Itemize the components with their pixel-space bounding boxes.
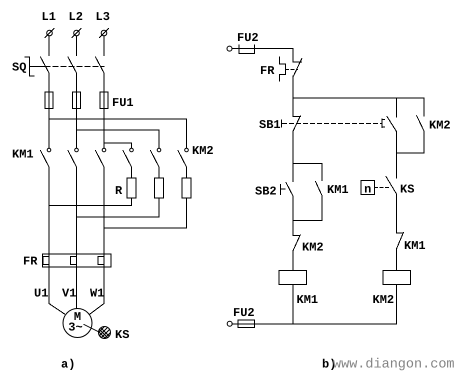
wire crossover phase1 to KM2 contact 6 (49, 119, 187, 148)
svg-text:L1: L1 (42, 10, 56, 24)
button SB2 NO contact (286, 183, 293, 197)
contactor KM2 main contact 4 (123, 148, 133, 167)
svg-text:n: n (364, 183, 371, 197)
wire FR to SB1 (292, 76, 294, 116)
svg-text:www.diangon.com: www.diangon.com (333, 358, 455, 373)
wire contact5 to resistor R2 (158, 167, 160, 178)
FR heater element 3 (98, 254, 104, 267)
wire contact6 to resistor R3 (186, 167, 188, 178)
contactor KM2 main contact 6 (178, 148, 188, 167)
wire split top down right (321, 163, 323, 180)
wire L2 to SQ (76, 36, 78, 56)
wire KS to KM1 NC (396, 194, 398, 233)
svg-text:KM2: KM2 (192, 144, 214, 158)
fuse FU1 phase 3 (100, 92, 108, 109)
switch SQ handle bracket (25, 57, 34, 76)
wire KM2 aux down (423, 131, 425, 153)
wire R1 to phase1 join (49, 198, 132, 206)
svg-text:L2: L2 (69, 10, 83, 24)
button SB1 NO contact (387, 117, 397, 132)
terminal L3 (100, 29, 109, 38)
wire KM1 coil to bus (292, 285, 294, 324)
FR heater element 2 (71, 254, 77, 267)
wire split top (293, 162, 322, 164)
wire FR to motor V1 (76, 267, 78, 309)
svg-text:FU2: FU2 (237, 31, 259, 45)
svg-text:KM1: KM1 (404, 239, 426, 253)
wire bottom bus (238, 323, 396, 325)
wire to KS contact (396, 153, 398, 178)
wire crossover phase2 to KM2 contact 5 (77, 130, 160, 148)
fuse FU2 top (232, 45, 254, 53)
wire to KM1 coil (292, 250, 294, 270)
svg-text:KM2: KM2 (373, 293, 395, 307)
fuse FU2 bottom (232, 320, 254, 328)
button SB1 link dashes (283, 122, 381, 124)
svg-text:FR: FR (23, 255, 38, 269)
wire fuse1 down to KM1 contact 1 (48, 109, 50, 148)
contactor KM1 NC interlock (396, 233, 403, 250)
svg-text:V1: V1 (62, 287, 76, 301)
svg-text:SQ: SQ (12, 61, 26, 75)
switch SQ blade 1 (41, 57, 50, 73)
svg-text:KM1: KM1 (297, 293, 319, 307)
wire R3 to phase3 join (104, 198, 187, 228)
coil KM2 (383, 271, 411, 285)
wire KM2 coil to bus (396, 285, 398, 324)
resistor R2 (155, 178, 164, 198)
svg-text:U1: U1 (34, 287, 48, 301)
wire split bottom (293, 219, 322, 221)
wire contact4 to resistor R1 (131, 167, 133, 178)
switch SQ blade 2 (68, 57, 77, 73)
wire R2 to phase2 join (77, 198, 160, 217)
shaft link motor to KS (84, 325, 99, 333)
contactor KM2 NC interlock (293, 235, 300, 250)
fuse FU1 phase 2 (73, 92, 81, 109)
wire SB2 down (292, 196, 294, 220)
FR heater element 1 (43, 254, 49, 267)
svg-text:KS: KS (400, 183, 414, 197)
svg-text:KM2: KM2 (302, 241, 324, 255)
svg-text:FU1: FU1 (112, 96, 134, 110)
wire right rail SB1NO top (396, 98, 398, 117)
button SB1 NO actuator E (382, 119, 385, 128)
terminal control top (227, 46, 232, 51)
svg-text:SB1: SB1 (259, 118, 281, 132)
contactor KM2 aux NO contact (417, 116, 424, 131)
switch SQ link line (30, 65, 46, 67)
wire L3 to SQ (103, 36, 105, 56)
svg-text:FR: FR (260, 64, 275, 78)
svg-text:3~: 3~ (68, 321, 82, 335)
wire crossover phase3 to KM2 contact 4 (104, 143, 132, 148)
wire to KM2 coil (396, 249, 398, 270)
FR NC contact (293, 59, 302, 77)
resistor R3 (182, 178, 191, 198)
svg-text:FU2: FU2 (233, 306, 255, 320)
wire SB1 NO down (396, 132, 398, 153)
wire KM1 contact1 down to FR (48, 167, 50, 254)
svg-text:W1: W1 (90, 287, 104, 301)
svg-text:KM1: KM1 (327, 183, 349, 197)
contactor KM2 main contact 5 (151, 148, 161, 167)
svg-text:SB2: SB2 (255, 185, 277, 199)
svg-text:a): a) (61, 358, 75, 372)
wire SQ to FU1-1 (48, 73, 50, 92)
wire KM2 aux top (423, 98, 425, 116)
switch SQ blade 3 (96, 57, 105, 73)
wire SB1 to split (292, 131, 294, 163)
contactor KM1 main contact 2 (68, 148, 78, 167)
speed relay KS NO contact (386, 177, 397, 195)
FR trip device bracket (280, 57, 286, 81)
wire split top down left (292, 163, 294, 181)
wire L1 to SQ (48, 36, 50, 56)
button SB2 actuator (281, 184, 286, 194)
wire right rail rejoin (397, 152, 425, 154)
terminal L1 (45, 29, 54, 38)
svg-text:L3: L3 (96, 10, 110, 24)
wire branch to right rail (293, 97, 424, 99)
button SB1 NC contact (293, 116, 300, 131)
wire KM1 contact2 down to FR (76, 167, 78, 254)
fuse FU1 phase 1 (45, 92, 53, 109)
button SB1 actuator bar (281, 120, 283, 127)
contactor KM1 main contact 1 (41, 148, 51, 167)
speed relay KS sensor box (361, 180, 375, 196)
terminal control bottom (227, 321, 232, 326)
wire KM1 aux down (321, 196, 323, 221)
wire SQ to FU1-2 (76, 73, 78, 92)
speed relay KS rotor (96, 318, 113, 349)
FR trip link dashes (286, 68, 298, 70)
wire to KM2 NC (292, 220, 294, 235)
coil KM1 (279, 271, 307, 285)
motor M circle (63, 309, 92, 338)
thermal relay FR box (43, 254, 112, 267)
terminal L2 (72, 29, 81, 38)
wire fuse2 down to KM1 contact 2 (76, 109, 78, 148)
wire FR to motor W1 (90, 267, 104, 314)
wire KM1 contact3 down to FR (103, 167, 105, 254)
resistor R1 (127, 178, 136, 198)
svg-text:KS: KS (115, 328, 129, 342)
KS link dashes (375, 186, 391, 188)
contactor KM1 aux NO contact (316, 182, 323, 196)
wire FR to motor U1 (49, 267, 65, 314)
svg-text:KM1: KM1 (12, 148, 34, 162)
wire fuse3 down to KM1 contact 3 (103, 109, 105, 148)
svg-text:R: R (115, 184, 123, 198)
wire FU2 to rail (239, 49, 293, 62)
wire SQ to FU1-3 (103, 73, 105, 92)
contactor KM1 main contact 3 (96, 148, 106, 167)
svg-text:KM2: KM2 (429, 119, 451, 133)
